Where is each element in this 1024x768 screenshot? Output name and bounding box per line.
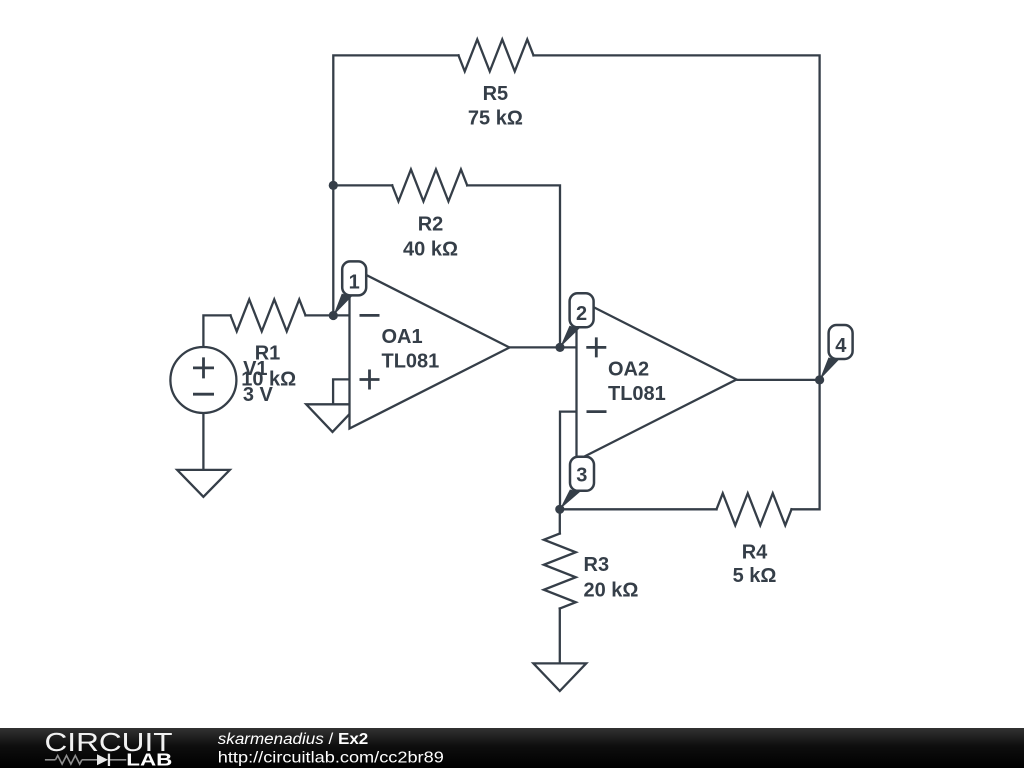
voltage source V1: [170, 347, 236, 413]
svg-text:20 kΩ: 20 kΩ: [584, 579, 639, 601]
svg-text:TL081: TL081: [608, 383, 666, 405]
wire R4 to node 3: [560, 508, 717, 510]
wire V1 bottom to ground: [202, 413, 204, 470]
junction dot at R2/R5 branch: [329, 181, 338, 190]
OA2 minus mark: [587, 410, 607, 413]
svg-text:TL081: TL081: [382, 350, 440, 372]
svg-text:4: 4: [835, 335, 847, 357]
wire top right and right vertical: [534, 55, 820, 509]
node 1 flag: [333, 261, 366, 315]
svg-text:R3: R3: [584, 554, 610, 576]
ground at OA1 non-inverting input: [306, 404, 359, 432]
op-amp OA2: [577, 299, 737, 461]
OA1 plus mark: [360, 370, 380, 390]
CircuitLab logo resistor-diode squiggle: [45, 756, 126, 765]
node 4 flag: [820, 325, 853, 380]
svg-text:75 kΩ: 75 kΩ: [468, 108, 523, 130]
wire OA2 inverting input jog down to node 3: [560, 412, 577, 510]
wire R2 right then down to node 2: [467, 185, 560, 347]
node 2 flag: [560, 293, 594, 347]
resistor R1 zigzag: [231, 299, 306, 331]
OA2 plus mark: [586, 337, 606, 357]
wire R3 to ground: [559, 609, 561, 664]
svg-text:skarmenadius / Ex2: skarmenadius / Ex2: [218, 731, 369, 748]
svg-text:OA2: OA2: [608, 358, 649, 380]
junction dot at node 4: [815, 375, 824, 384]
wire R2 branch from left vertical: [333, 184, 392, 186]
logo diode bar: [108, 754, 110, 766]
logo diode triangle: [97, 754, 108, 765]
resistor R2 zigzag: [392, 169, 467, 201]
resistor R5 zigzag: [459, 39, 534, 71]
svg-text:1: 1: [349, 271, 360, 293]
junction dot at node 3: [555, 505, 564, 514]
svg-text:3 V: 3 V: [243, 384, 274, 406]
svg-text:R2: R2: [418, 214, 444, 236]
svg-text:3: 3: [576, 465, 587, 487]
svg-text:R5: R5: [483, 83, 509, 105]
ground below V1: [177, 470, 230, 497]
junction dot at node 2: [555, 343, 564, 352]
svg-text:OA1: OA1: [382, 326, 423, 348]
wire node 3 down to R3: [559, 509, 561, 533]
footer black bar: [0, 728, 1024, 768]
OA1 minus mark: [360, 314, 380, 317]
svg-text:http://circuitlab.com/cc2br89: http://circuitlab.com/cc2br89: [218, 750, 444, 767]
svg-text:LAB: LAB: [126, 749, 172, 768]
wire OA1 output to node 2: [510, 346, 561, 348]
wire top feedback loop with R5 and right vertical down to R4: [333, 55, 458, 315]
wire OA1 non-inverting input jog to ground: [333, 379, 349, 404]
svg-text:40 kΩ: 40 kΩ: [403, 239, 458, 261]
svg-text:R4: R4: [742, 541, 768, 563]
wire node 2 to OA2 non-inverting input: [560, 346, 577, 348]
wire V1 top to R1: [203, 315, 230, 347]
op-amp OA1: [350, 267, 510, 429]
svg-text:5 kΩ: 5 kΩ: [733, 565, 777, 587]
svg-text:2: 2: [576, 303, 587, 325]
resistor R3 zigzag: [544, 534, 576, 609]
node 3 flag: [560, 457, 594, 510]
ground below R3: [533, 663, 586, 691]
wire R1 to OA1 inverting input: [306, 314, 350, 316]
junction dot at OA1 inverting input (node 1): [329, 311, 338, 320]
wire OA2 output to node 4: [737, 379, 820, 381]
resistor R4 zigzag: [717, 493, 792, 525]
